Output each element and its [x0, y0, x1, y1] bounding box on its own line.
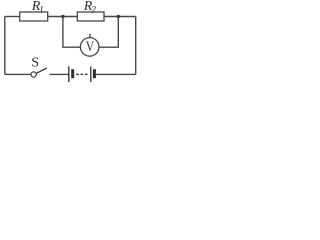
svg-text:V: V	[86, 38, 95, 55]
svg-text:S: S	[31, 56, 39, 71]
svg-text:R1: R1	[31, 0, 44, 15]
svg-text:R2: R2	[83, 0, 96, 15]
